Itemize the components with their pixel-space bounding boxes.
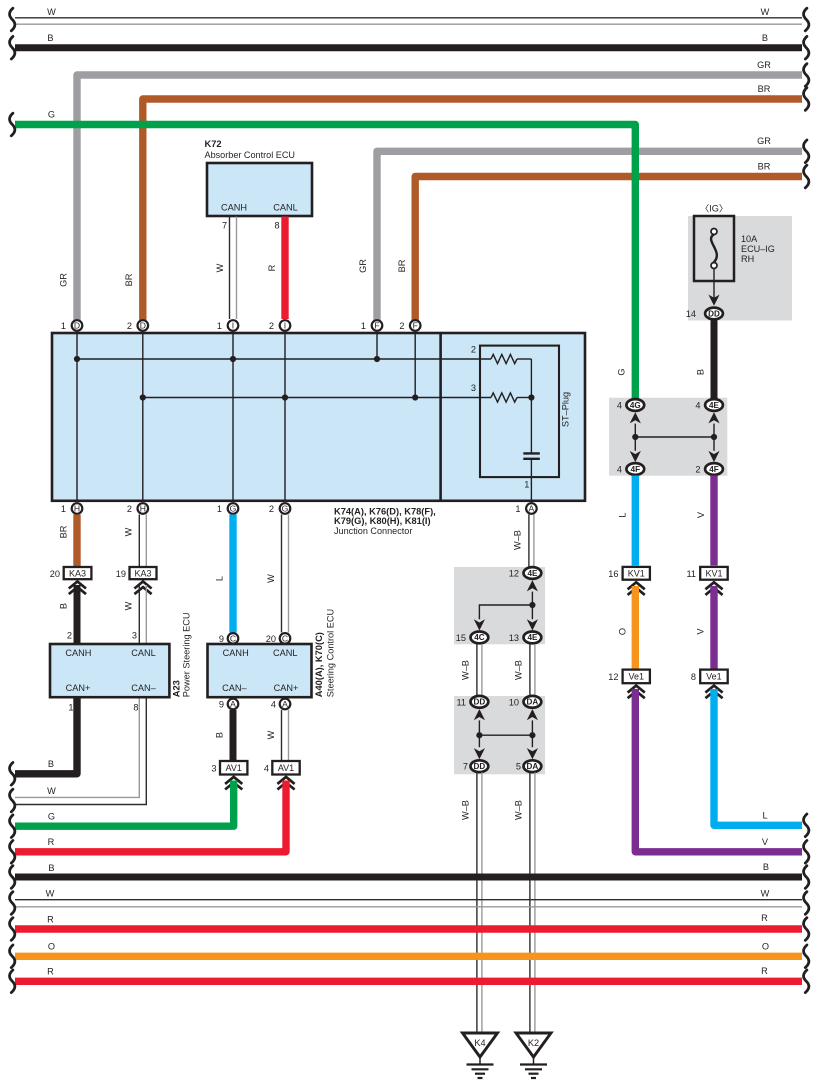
svg-text:1: 1 <box>515 504 520 514</box>
junction connector internal vertical pin 2F stub <box>414 334 416 398</box>
wire bus W top (double line) <box>15 17 802 19</box>
svg-text:W: W <box>215 263 225 272</box>
pin 1 G <box>228 503 239 514</box>
svg-text:RH: RH <box>741 254 754 264</box>
wire resistor to capacitor <box>530 359 532 453</box>
svg-text:A40(A), K70(C): A40(A), K70(C) <box>314 632 324 697</box>
svg-text:4F: 4F <box>631 465 641 474</box>
svg-text:W: W <box>266 730 276 739</box>
svg-text:K2: K2 <box>528 1038 539 1048</box>
connector oval 2 4F <box>705 463 723 475</box>
junction dot 1D <box>74 356 80 362</box>
wire W KA3 to A23 pin3 <box>138 585 140 643</box>
brace right GR1 <box>804 64 809 87</box>
wire junction cross link <box>635 436 714 438</box>
svg-text:B: B <box>48 863 54 873</box>
svg-text:1: 1 <box>361 321 366 331</box>
pin 1 A <box>526 503 537 514</box>
svg-text:L: L <box>618 512 628 517</box>
svg-text:4E: 4E <box>709 401 720 410</box>
svg-text:5: 5 <box>516 762 521 772</box>
svg-text:G: G <box>617 368 627 375</box>
connector oval 5 DA <box>524 760 542 772</box>
resistor R3 (terminating, row 3) <box>491 393 517 402</box>
pin 2 D <box>138 320 149 331</box>
brace right W bottom <box>804 892 809 915</box>
resistor R2 (terminating, row 2) <box>491 354 517 363</box>
svg-text:AV1: AV1 <box>278 763 294 773</box>
junction dot ST-plug <box>528 394 534 400</box>
svg-text:ST–Plug: ST–Plug <box>561 392 571 427</box>
svg-text:A: A <box>529 504 535 514</box>
wire DA to dot <box>531 720 533 735</box>
svg-text:GR: GR <box>59 273 69 287</box>
svg-text:W–B: W–B <box>514 800 524 820</box>
gray connector block DD/DA <box>454 696 545 774</box>
svg-text:Ve1: Ve1 <box>706 672 722 682</box>
arrow down into 4F right <box>708 451 719 462</box>
svg-text:12: 12 <box>608 672 618 682</box>
connector 12 Ve1 <box>623 670 650 684</box>
svg-text:K79(G), K80(H), K81(I): K79(G), K80(H), K81(I) <box>334 516 431 526</box>
junction dot left <box>632 434 638 440</box>
svg-text:10A: 10A <box>741 234 758 244</box>
wire W 2G to A40 <box>281 515 283 633</box>
svg-text:W: W <box>124 527 134 536</box>
wire BR bus 1 <box>143 99 802 322</box>
svg-text:V: V <box>762 837 769 847</box>
svg-text:8: 8 <box>274 221 279 231</box>
junction connector internal vertical pin 1I-1G <box>232 334 234 500</box>
svg-text:G: G <box>282 504 289 514</box>
brace left G bus mid <box>10 815 15 838</box>
svg-text:W: W <box>266 574 276 583</box>
fuse 10A ECU-IG RH body <box>694 216 734 281</box>
chevron AV1 right <box>277 777 294 784</box>
svg-text:B: B <box>762 33 768 43</box>
junction dot 1I <box>230 356 236 362</box>
junction connector internal vertical pin 1F stub <box>376 334 378 359</box>
CANH internal bus line <box>77 358 491 360</box>
svg-text:Junction Connector: Junction Connector <box>334 526 412 536</box>
svg-text:BR: BR <box>758 84 771 94</box>
svg-text:A23: A23 <box>172 680 182 697</box>
svg-text:BR: BR <box>59 525 69 538</box>
chevron KA3 right <box>134 582 151 589</box>
connector oval 15 4C <box>471 632 489 644</box>
svg-text:3: 3 <box>132 631 137 641</box>
svg-text:8: 8 <box>133 703 138 713</box>
svg-text:R: R <box>761 913 768 923</box>
wire W A40 to AV1 <box>281 710 283 760</box>
svg-text:4G: 4G <box>630 401 641 410</box>
svg-text:2: 2 <box>67 631 72 641</box>
wire W A23 pin8 to left edge (double) <box>15 699 139 798</box>
wire W-B 4E to DA <box>529 644 531 696</box>
arrow up below DA <box>527 709 538 720</box>
junction dot 1F <box>374 356 380 362</box>
svg-text:CAN+: CAN+ <box>274 683 299 693</box>
connector oval 4 4G <box>626 399 644 411</box>
svg-text:4C: 4C <box>474 633 485 642</box>
brace right L <box>804 814 809 837</box>
pin 4 A A40 <box>280 699 291 710</box>
svg-text:B: B <box>763 862 769 872</box>
svg-text:4: 4 <box>617 465 622 475</box>
junction connector internal vertical pin 1D-1H <box>76 334 78 500</box>
svg-text:W–B: W–B <box>461 660 471 680</box>
wire cross link to 4C <box>479 605 532 619</box>
svg-text:D: D <box>140 321 146 331</box>
arrow down into DA-5 <box>527 748 538 759</box>
wire BR bus 2 <box>415 177 802 323</box>
svg-text:D: D <box>74 321 80 331</box>
svg-text:R: R <box>267 264 277 271</box>
svg-text:1: 1 <box>217 504 222 514</box>
svg-text:DD: DD <box>474 762 486 771</box>
brace left R mid <box>10 841 15 864</box>
svg-text:11: 11 <box>686 569 696 579</box>
wire GR bus 2 <box>377 151 802 322</box>
svg-text:I: I <box>284 321 286 331</box>
svg-text:14: 14 <box>686 309 696 319</box>
svg-text:O: O <box>762 942 769 952</box>
wire GR bus 1 <box>77 75 802 322</box>
svg-text:11: 11 <box>456 697 466 707</box>
wire W-B DD-7 to ground K4 <box>476 773 478 1033</box>
svg-text:W: W <box>761 7 770 17</box>
svg-text:K74(A), K76(D), K78(F),: K74(A), K76(D), K78(F), <box>334 507 436 517</box>
svg-text:2: 2 <box>269 504 274 514</box>
junction dot 4E chain <box>529 602 535 608</box>
connector 16 KV1 <box>623 567 650 580</box>
wire O KV1 to Ve1 <box>632 586 639 669</box>
connector 19 KA3 <box>130 567 157 579</box>
svg-text:BR: BR <box>397 259 407 272</box>
pin 20 C A40 <box>280 633 291 644</box>
svg-text:12: 12 <box>509 569 519 579</box>
wire G bus top <box>15 125 635 400</box>
pin 2 G <box>280 503 291 514</box>
connector oval 4 4F <box>626 463 644 475</box>
wire to DD-7 <box>478 735 480 747</box>
svg-text:BR: BR <box>124 273 134 286</box>
svg-text:KV1: KV1 <box>628 569 645 579</box>
brace left B mid <box>10 763 15 786</box>
ground K4 <box>463 1033 498 1057</box>
svg-text:GR: GR <box>757 60 771 70</box>
pin 1 D <box>72 320 83 331</box>
svg-text:W–B: W–B <box>513 530 523 550</box>
arrow up below 4E <box>708 412 719 423</box>
arrow down into 4F left <box>630 451 641 462</box>
junction connector internal divider <box>439 333 442 501</box>
svg-text:15: 15 <box>456 633 466 643</box>
wire to 4F right <box>713 437 715 451</box>
svg-text:2: 2 <box>269 321 274 331</box>
gray connector block 4E/4C <box>454 567 545 644</box>
svg-text:CANH: CANH <box>221 203 247 213</box>
svg-text:Power Steering ECU: Power Steering ECU <box>182 612 192 697</box>
svg-text:R: R <box>47 915 54 925</box>
svg-text:W: W <box>761 889 770 899</box>
brace left O bottom <box>10 945 15 968</box>
ECU A40 Steering Control body <box>208 644 312 697</box>
arrow into DD <box>708 295 719 306</box>
svg-text:R: R <box>48 837 55 847</box>
svg-text:B: B <box>215 732 225 738</box>
junction dot 2I <box>282 394 288 400</box>
junction connector internal vertical pin 2I-2G <box>284 334 286 500</box>
svg-text:R: R <box>761 966 768 976</box>
svg-text:A: A <box>230 699 236 709</box>
junction dot DD chain <box>476 732 482 738</box>
junction dot 2F <box>412 394 418 400</box>
wire B A23 pin1 to left edge <box>15 699 77 774</box>
svg-text:2: 2 <box>127 321 132 331</box>
wire W K72 pin7 to 1I <box>229 217 231 320</box>
svg-text:4E: 4E <box>527 633 538 642</box>
svg-text:4: 4 <box>617 401 622 411</box>
connector oval 7 DD <box>471 760 489 772</box>
connector 11 KV1 <box>700 567 728 580</box>
brace right V <box>804 841 809 864</box>
pin 2 I <box>280 320 291 331</box>
ECU K72 Absorber Control body <box>207 163 312 216</box>
capacitor C1 <box>523 452 540 454</box>
svg-text:〈IG〉: 〈IG〉 <box>700 204 728 214</box>
brace right R1 bottom <box>804 918 809 941</box>
svg-text:1: 1 <box>217 321 222 331</box>
gray connector block 4G/4E/4F <box>609 398 727 476</box>
wire bus O bottom <box>15 953 802 960</box>
svg-text:W–B: W–B <box>514 660 524 680</box>
svg-text:CANL: CANL <box>273 203 298 213</box>
svg-text:BR: BR <box>758 162 771 172</box>
svg-text:A: A <box>282 699 288 709</box>
svg-text:W: W <box>46 889 55 899</box>
svg-text:K4: K4 <box>474 1038 485 1048</box>
wire to 4F left <box>634 437 636 451</box>
wire to DA-5 <box>531 735 533 747</box>
pin 1 F <box>372 320 383 331</box>
svg-text:3: 3 <box>471 383 476 393</box>
svg-text:L: L <box>215 576 225 581</box>
svg-text:F: F <box>374 321 379 331</box>
pin 1 H <box>72 503 83 514</box>
svg-text:CANL: CANL <box>273 648 298 658</box>
svg-text:1: 1 <box>524 480 529 490</box>
svg-text:DA: DA <box>527 762 539 771</box>
brace left R1 bottom <box>10 918 15 941</box>
svg-text:AV1: AV1 <box>226 763 242 773</box>
brace left B top <box>10 36 15 59</box>
svg-text:2: 2 <box>127 504 132 514</box>
brace right GR2 <box>804 140 809 163</box>
wire W-B 4C to DD <box>476 644 478 696</box>
brace right B top <box>804 36 809 59</box>
connector oval 12 4E <box>524 567 542 579</box>
wire capacitor to pin 1A <box>530 459 532 503</box>
wire BR 1H to KA3 <box>73 515 80 567</box>
svg-text:16: 16 <box>608 569 618 579</box>
junction dot 2D <box>140 394 146 400</box>
brace right O bottom <box>804 945 809 968</box>
wire G AV1 to left edge <box>15 781 234 827</box>
svg-text:1: 1 <box>68 703 73 713</box>
brace right R2 bottom <box>804 970 809 993</box>
svg-text:F: F <box>413 321 418 331</box>
svg-text:10: 10 <box>509 697 519 707</box>
brace left W bottom <box>10 892 15 915</box>
svg-text:20: 20 <box>266 634 276 644</box>
wire bus W bottom (double line) <box>15 899 802 901</box>
svg-text:2: 2 <box>399 321 404 331</box>
svg-text:W: W <box>47 786 56 796</box>
svg-text:20: 20 <box>50 569 60 579</box>
svg-text:GR: GR <box>757 136 771 146</box>
svg-text:O: O <box>48 942 55 952</box>
svg-text:Absorber Control ECU: Absorber Control ECU <box>205 150 295 160</box>
svg-text:4: 4 <box>271 700 276 710</box>
connector 20 KA3 <box>64 567 92 579</box>
wire down right <box>531 605 533 619</box>
svg-text:C: C <box>230 633 236 643</box>
svg-text:3: 3 <box>211 764 216 774</box>
svg-text:7: 7 <box>222 221 227 231</box>
junction connector K74-K81 body <box>52 333 585 501</box>
svg-text:R: R <box>47 967 54 977</box>
brace left G <box>10 113 15 136</box>
connector oval 4 4E <box>705 399 723 411</box>
connector 3 AV1 <box>220 761 247 775</box>
svg-text:1: 1 <box>61 321 66 331</box>
svg-text:CANL: CANL <box>131 648 156 658</box>
wire B A40 to AV1 <box>230 710 237 760</box>
wire V KV1 to Ve1 <box>710 586 717 669</box>
wire L Ve1 to right edge <box>714 689 802 825</box>
brace left B bottom <box>10 866 15 889</box>
svg-text:W: W <box>47 7 56 17</box>
svg-text:H: H <box>140 504 146 514</box>
svg-text:O: O <box>618 628 628 635</box>
svg-text:1: 1 <box>61 504 66 514</box>
svg-text:Ve1: Ve1 <box>628 672 644 682</box>
svg-text:KV1: KV1 <box>705 569 722 579</box>
svg-text:2: 2 <box>471 344 476 354</box>
arrow up below 12 4E <box>527 580 538 591</box>
svg-text:K72: K72 <box>205 139 222 149</box>
svg-text:V: V <box>696 511 706 518</box>
svg-text:W: W <box>124 601 134 610</box>
connector 4 AV1 <box>272 761 299 775</box>
pin 2 F <box>410 320 421 331</box>
wire W-B DA-5 to ground K2 <box>529 773 531 1033</box>
svg-text:ECU–IG: ECU–IG <box>741 244 775 254</box>
svg-text:9: 9 <box>219 700 224 710</box>
brace left W mid <box>10 789 15 812</box>
svg-text:I: I <box>232 321 234 331</box>
svg-text:KA3: KA3 <box>69 568 86 578</box>
wire fuse to connector DD <box>713 269 715 302</box>
svg-text:CAN+: CAN+ <box>66 683 91 693</box>
wire B KA3 to A23 pin2 <box>74 585 81 643</box>
wire R K72 pin8 to 2I <box>281 217 288 320</box>
pin 9 A A40 <box>228 699 239 710</box>
junction dot right <box>711 434 717 440</box>
wire V 4F to KV1 <box>710 476 717 566</box>
svg-text:L: L <box>762 811 767 821</box>
wire L 1G to A40 <box>229 515 236 633</box>
svg-text:19: 19 <box>116 569 126 579</box>
svg-text:CANH: CANH <box>223 648 249 658</box>
connector oval 13 4E <box>524 632 542 644</box>
pin 1 I <box>228 320 239 331</box>
svg-text:8: 8 <box>691 672 696 682</box>
svg-text:B: B <box>48 759 54 769</box>
svg-text:CAN–: CAN– <box>131 683 156 693</box>
brace right BR2 <box>804 165 809 188</box>
svg-text:CAN–: CAN– <box>222 683 247 693</box>
wire 4E to junction <box>713 424 715 437</box>
wire bus R1 bottom <box>15 925 802 932</box>
svg-text:DD: DD <box>474 698 486 707</box>
wire cross link DD-DA <box>479 734 532 736</box>
chevron KV1 right <box>705 582 722 589</box>
brace right W top <box>804 8 809 31</box>
arrow up below DD <box>474 709 485 720</box>
arrow down into DD-7 <box>474 748 485 759</box>
svg-text:C: C <box>282 633 288 643</box>
connector oval 14 DD <box>705 308 723 320</box>
svg-text:2: 2 <box>695 465 700 475</box>
pin 9 C A40 <box>228 633 239 644</box>
ECU A23 Power Steering body <box>50 644 169 697</box>
wire 4E to junction dot <box>531 592 533 605</box>
wire bus B top <box>15 44 802 51</box>
arrow up below 4G <box>630 412 641 423</box>
chevron Ve1 left <box>628 686 645 693</box>
arrow down into 4C <box>474 619 485 630</box>
ST-Plug inner box <box>480 346 559 478</box>
wire DD to dot <box>478 720 480 735</box>
svg-text:G: G <box>48 110 55 120</box>
wire W-B pin A to 4E <box>528 515 530 568</box>
svg-text:4: 4 <box>264 764 269 774</box>
wire 4G to junction <box>634 424 636 437</box>
svg-text:4F: 4F <box>709 465 719 474</box>
svg-text:9: 9 <box>219 634 224 644</box>
svg-text:DA: DA <box>527 698 539 707</box>
brace right BR1 <box>804 88 809 111</box>
fuse block background (IG) <box>688 216 792 321</box>
svg-text:B: B <box>696 369 706 375</box>
junction dot DA chain <box>529 732 535 738</box>
wire bus R2 bottom <box>15 978 802 985</box>
connector oval 11 DD <box>471 696 489 708</box>
svg-text:W–B: W–B <box>461 800 471 820</box>
wire B fuse column <box>711 321 718 400</box>
svg-text:CANH: CANH <box>65 648 91 658</box>
wire V Ve1 to right edge <box>635 689 802 852</box>
pin 2 H <box>138 503 149 514</box>
wire W 2H to KA3 <box>138 515 140 567</box>
svg-text:G: G <box>230 504 237 514</box>
brace right B bottom <box>804 866 809 889</box>
connector oval 10 DA <box>524 696 542 708</box>
brace left R2 bottom <box>10 970 15 993</box>
svg-text:DD: DD <box>708 309 720 318</box>
